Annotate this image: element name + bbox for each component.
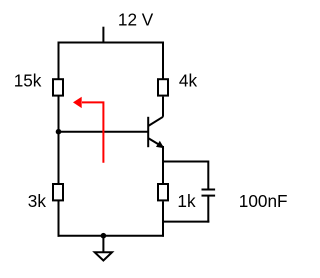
feedback arrow (red) head bbox=[73, 97, 82, 108]
node ground junction dot bbox=[101, 233, 107, 239]
wire emitter lead down bbox=[162, 146, 164, 184]
ground symbol triangle bbox=[95, 252, 112, 260]
svg-text:1k: 1k bbox=[177, 191, 196, 211]
wire top rail bbox=[58, 42, 165, 44]
transistor Q1 NPN collector diagonal bbox=[148, 117, 163, 126]
resistor 3k bbox=[53, 184, 63, 200]
wire left branch vertical bbox=[58, 42, 60, 237]
svg-text:100nF: 100nF bbox=[239, 191, 288, 211]
wire collector lead bbox=[162, 97, 164, 117]
capacitor 100nF plates bbox=[202, 190, 216, 196]
svg-text:3k: 3k bbox=[28, 191, 47, 211]
transistor Q1 base bar bbox=[147, 117, 149, 147]
wire emitter to capacitor top branch bbox=[162, 161, 208, 163]
resistor 4k bbox=[158, 79, 168, 95]
transistor Q1 emitter diagonal with arrow bbox=[148, 138, 164, 148]
capacitor 100nF top lead bbox=[207, 161, 209, 190]
capacitor 100nF bottom lead bbox=[207, 196, 209, 223]
wire bottom rail bbox=[58, 235, 165, 237]
resistor 15k bbox=[53, 79, 63, 95]
ground stem bbox=[102, 236, 104, 253]
svg-text:15k: 15k bbox=[14, 71, 42, 91]
node base junction dot bbox=[56, 129, 62, 135]
feedback arrow (red) wire bbox=[82, 102, 103, 162]
wire 1k bottom lead bbox=[162, 201, 164, 236]
svg-text:12 V: 12 V bbox=[118, 10, 154, 30]
svg-text:4k: 4k bbox=[179, 71, 198, 91]
wire base bbox=[59, 131, 149, 133]
power supply tick (+12V rail) bbox=[102, 27, 104, 43]
resistor 1k bbox=[158, 184, 168, 200]
wire right top lead to 4k bbox=[162, 42, 164, 80]
wire capacitor bottom branch bbox=[162, 221, 209, 223]
